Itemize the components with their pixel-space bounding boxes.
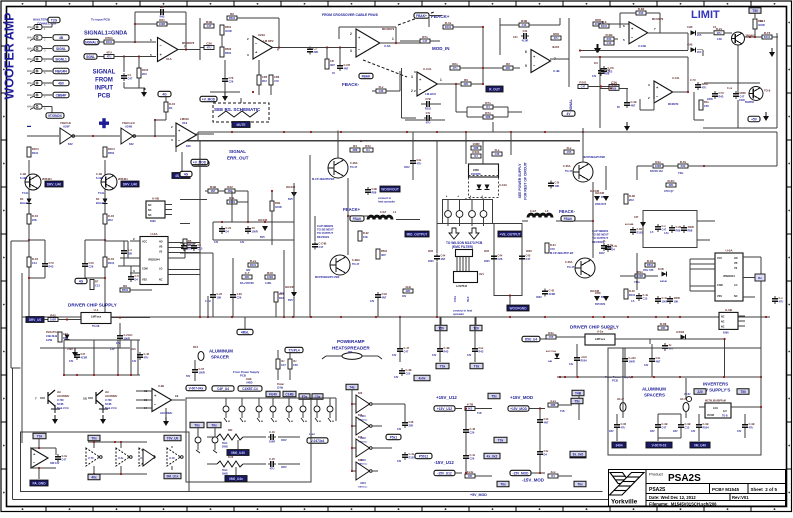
svg-text:C76: C76	[229, 76, 234, 80]
svg-text:R504: R504	[105, 36, 113, 40]
svg-text:T50: T50	[740, 390, 746, 394]
svg-text:C4x: C4x	[569, 363, 574, 366]
svg-text:R4x: R4x	[365, 144, 371, 148]
svg-text:0.4x7: 0.4x7	[530, 210, 537, 213]
svg-text:R-4C: R-4C	[629, 289, 635, 293]
svg-text:4HC0: 4HC0	[552, 45, 560, 49]
svg-text:R101: R101	[637, 231, 644, 235]
svg-text:T0x: T0x	[474, 365, 480, 369]
svg-text:1: 1	[440, 78, 442, 82]
svg-text:13V: 13V	[394, 376, 399, 379]
svg-text:T5x: T5x	[491, 395, 497, 399]
svg-text:1BV: 1BV	[650, 430, 655, 433]
svg-text:200V: 200V	[484, 260, 490, 263]
svg-text:C-1B: C-1B	[20, 172, 26, 176]
svg-text:C47: C47	[740, 95, 745, 99]
svg-text:4N7: 4N7	[544, 421, 549, 425]
svg-text:FB/GR4: FB/GR4	[55, 70, 67, 74]
svg-text:R-C0: R-C0	[108, 214, 115, 218]
svg-text:D4: D4	[169, 106, 173, 110]
svg-text:NC: NC	[721, 315, 725, 318]
svg-text:R7x: R7x	[485, 111, 491, 115]
svg-text:C4x: C4x	[417, 158, 422, 162]
svg-text:C55: C55	[567, 150, 572, 154]
svg-text:MOD_IN: MOD_IN	[432, 46, 450, 51]
svg-text:R88: R88	[551, 403, 556, 407]
svg-text:MC33079: MC33079	[382, 27, 395, 31]
svg-text:R-4x: R-4x	[445, 21, 452, 25]
svg-text:R08: R08	[553, 32, 559, 36]
svg-text:R5: R5	[188, 239, 192, 243]
svg-text:FBAK: FBAK	[564, 217, 574, 221]
svg-text:3: 3	[411, 75, 413, 79]
svg-text:R88: R88	[372, 191, 377, 195]
svg-text:TO-B: TO-B	[722, 416, 728, 418]
svg-text:FBAK: FBAK	[353, 217, 363, 221]
svg-text:R-02: R-02	[363, 231, 369, 235]
svg-text:C7U: C7U	[49, 261, 54, 265]
svg-text:C41: C41	[513, 36, 518, 39]
svg-text:R43: R43	[607, 37, 612, 41]
svg-text:13V: 13V	[392, 354, 397, 357]
svg-text:U-0A: U-0A	[150, 232, 158, 236]
svg-text:6X96: 6X96	[723, 331, 729, 334]
svg-text:M2CP3B4xPCPBF: M2CP3B4xPCPBF	[583, 155, 606, 159]
svg-text:0M0_U40: 0M0_U40	[231, 451, 245, 455]
svg-text:+15V_MOD: +15V_MOD	[510, 395, 533, 400]
svg-text:4C0R: 4C0R	[225, 29, 232, 33]
svg-text:2K2: 2K2	[142, 72, 147, 76]
svg-text:4C0R: 4C0R	[758, 23, 765, 27]
svg-text:C26: C26	[206, 42, 212, 46]
svg-text:C47: C47	[634, 216, 639, 219]
svg-text:COM: COM	[142, 268, 148, 271]
svg-text:100R: 100R	[662, 300, 668, 304]
svg-text:306B: 306B	[222, 473, 228, 476]
svg-text:TO-47: TO-47	[350, 165, 358, 169]
svg-text:3UB: 3UB	[428, 250, 433, 253]
svg-text:C-28A: C-28A	[350, 161, 358, 165]
svg-text:AV1: AV1	[479, 272, 484, 276]
svg-text:R-C0: R-C0	[32, 257, 39, 261]
svg-text:13V: 13V	[240, 241, 245, 244]
svg-text:13V: 13V	[370, 300, 375, 303]
svg-text:C-3x: C-3x	[612, 244, 618, 248]
svg-text:4-0V7B-B: 4-0V7B-B	[456, 285, 467, 288]
svg-text:HH: HH	[105, 391, 109, 394]
svg-text:C47: C47	[662, 426, 667, 430]
svg-text:400V: 400V	[404, 166, 410, 169]
svg-text:3404: 3404	[615, 444, 622, 448]
svg-text:R-0x: R-0x	[680, 160, 687, 164]
svg-text:2: 2	[350, 32, 352, 36]
svg-text:47U: 47U	[717, 31, 722, 35]
svg-text:4xx: 4xx	[550, 470, 555, 474]
svg-text:(C4b): (C4b)	[277, 387, 283, 390]
svg-text:740x: 740x	[678, 172, 684, 175]
svg-text:WAd: WAd	[27, 81, 33, 85]
svg-text:0M_U40: 0M_U40	[694, 444, 706, 448]
svg-text:VS: VS	[159, 251, 163, 254]
svg-text:COM: COM	[717, 284, 723, 287]
svg-text:M: M	[228, 421, 230, 423]
svg-text:C-1B: C-1B	[96, 172, 102, 176]
svg-text:C4H: C4H	[382, 292, 387, 296]
svg-text:R101: R101	[250, 263, 257, 267]
svg-text:R43: R43	[719, 95, 724, 99]
svg-text:4HC7C4A: 4HC7C4A	[546, 350, 556, 353]
svg-text:C-06A: C-06A	[563, 164, 571, 168]
svg-text:C27: C27	[160, 5, 165, 9]
svg-text:47U: 47U	[749, 426, 754, 430]
svg-text:T0x: T0x	[577, 483, 583, 487]
svg-text:+V_MOD: +V_MOD	[202, 98, 216, 102]
svg-text:R88: R88	[688, 229, 693, 233]
svg-text:TO-47: TO-47	[567, 265, 575, 269]
svg-text:MID_OUTPUT: MID_OUTPUT	[407, 233, 428, 237]
svg-text:TC4L: TC4L	[22, 191, 29, 195]
svg-text:C13: C13	[522, 23, 527, 27]
svg-text:D4: D4	[544, 453, 548, 457]
svg-text:4V: 4V	[332, 72, 335, 75]
svg-text:U-C4A: U-C4A	[499, 183, 507, 187]
svg-text:6X3: 6X3	[358, 392, 363, 395]
svg-text:PCB# M1545: PCB# M1545	[712, 487, 740, 492]
svg-text:FBACK+: FBACK+	[343, 207, 361, 212]
svg-text:306B: 306B	[222, 446, 228, 449]
svg-text:T5x: T5x	[574, 400, 580, 404]
svg-text:13V: 13V	[432, 354, 437, 357]
svg-text:TC4L: TC4L	[98, 191, 105, 195]
svg-text:C-24: C-24	[217, 292, 223, 296]
svg-text:Rx: Rx	[758, 276, 762, 280]
svg-text:12: 12	[175, 394, 179, 398]
svg-text:R101: R101	[629, 293, 636, 297]
svg-text:Product: Product	[649, 472, 664, 477]
svg-text:FBACK+: FBACK+	[431, 14, 450, 19]
svg-text:R-01: R-01	[647, 259, 654, 263]
svg-text:C47: C47	[662, 228, 667, 232]
svg-text:NC: NC	[148, 214, 152, 217]
svg-text:R43: R43	[639, 11, 644, 15]
svg-text:100R: 100R	[472, 142, 480, 146]
svg-text:22K: 22K	[245, 275, 250, 279]
svg-text:4N7: 4N7	[330, 63, 335, 67]
svg-text:C7U: C7U	[719, 91, 724, 95]
svg-text:M: M	[332, 421, 334, 423]
svg-text:From Power Supply: From Power Supply	[233, 370, 260, 374]
svg-text:NC: NC	[721, 320, 725, 323]
svg-text:4C0R: 4C0R	[522, 39, 529, 43]
svg-text:1: 1	[392, 37, 394, 41]
svg-text:C47: C47	[207, 24, 212, 28]
svg-text:R42: R42	[50, 314, 56, 318]
svg-text:C47: C47	[81, 352, 86, 356]
svg-text:R101: R101	[32, 151, 39, 155]
svg-text:C-46: C-46	[470, 427, 476, 431]
svg-text:MC76L/BA/BPFxM: MC76L/BA/BPFxM	[705, 400, 726, 403]
svg-text:TO-47: TO-47	[565, 169, 573, 173]
svg-text:WOOF/OUT: WOOF/OUT	[381, 188, 399, 192]
svg-text:R101: R101	[579, 81, 587, 85]
svg-text:U-C4L: U-C4L	[672, 76, 680, 80]
svg-text:POWERAMP: POWERAMP	[337, 339, 365, 344]
svg-text:U-3x: U-3x	[118, 457, 124, 460]
svg-text:R504: R504	[229, 16, 236, 20]
svg-text:DRIVER CHIP SUPPLY: DRIVER CHIP SUPPLY	[68, 303, 117, 308]
svg-text:4N7: 4N7	[631, 104, 636, 108]
svg-text:13V: 13V	[592, 75, 597, 78]
svg-text:400V: 400V	[281, 466, 287, 469]
svg-text:13V: 13V	[467, 354, 472, 357]
svg-text:100R: 100R	[269, 440, 275, 444]
svg-text:LF4004: LF4004	[676, 331, 685, 334]
svg-text:HH: HH	[57, 391, 61, 394]
svg-text:T0x: T0x	[91, 437, 97, 441]
svg-text:47U: 47U	[453, 66, 458, 70]
svg-text:D4x: D4x	[655, 160, 661, 164]
svg-text:D4: D4	[135, 278, 139, 282]
svg-text:TO-08: TO-08	[92, 324, 100, 328]
svg-text:450x 72B: 450x 72B	[643, 269, 654, 272]
svg-text:spreader: spreader	[453, 312, 464, 316]
svg-text:100R: 100R	[629, 360, 635, 364]
svg-text:+5V_MOD: +5V_MOD	[470, 493, 487, 497]
svg-text:47U: 47U	[779, 300, 784, 304]
svg-text:PCB: PCB	[98, 94, 111, 100]
svg-text:+5V: +5V	[751, 118, 758, 122]
svg-text:C14B: C14B	[285, 393, 294, 397]
svg-text:47U: 47U	[621, 426, 626, 430]
svg-text:47U: 47U	[144, 356, 149, 360]
svg-text:10K: 10K	[363, 235, 368, 239]
svg-text:BV5: BV5	[288, 198, 293, 201]
svg-text:PSA2S: PSA2S	[668, 473, 701, 484]
svg-text:0.68: 0.68	[717, 38, 722, 41]
svg-text:LO: LO	[159, 268, 162, 271]
svg-text:4C0R: 4C0R	[549, 292, 556, 296]
svg-text:4B: 4B	[59, 36, 64, 40]
svg-text:SIGNL: SIGNL	[56, 47, 66, 51]
svg-text:VS: VS	[734, 267, 738, 270]
svg-text:C13: C13	[198, 247, 203, 251]
svg-text:SIGNAL: SIGNAL	[229, 149, 246, 154]
svg-text:Dual-V-CA: Dual-V-CA	[105, 407, 117, 410]
svg-text:D4: D4	[486, 105, 490, 109]
svg-text:220: 220	[697, 390, 703, 394]
svg-text:connect to heat: connect to heat	[453, 309, 472, 313]
svg-text:C-47: C-47	[404, 346, 410, 350]
svg-text:C-7: C-7	[245, 271, 250, 275]
svg-text:C-x23: C-x23	[629, 356, 637, 360]
svg-text:U-7C: U-7C	[88, 457, 94, 460]
svg-text:HO: HO	[159, 241, 163, 244]
svg-text:100R: 100R	[267, 275, 273, 279]
svg-text:R-C2: R-C2	[169, 102, 176, 106]
svg-text:R101: R101	[108, 261, 115, 265]
svg-text:+VE_OUTPUT: +VE_OUTPUT	[500, 233, 521, 237]
svg-text:U-1C: U-1C	[169, 457, 175, 460]
svg-text:BAT4K: BAT4K	[660, 280, 668, 283]
svg-text:R4x: R4x	[548, 331, 554, 335]
svg-text:C-4B: C-4B	[406, 368, 412, 372]
svg-text:SC4B: SC4B	[57, 403, 64, 406]
svg-text:R4B: R4B	[210, 185, 217, 189]
svg-text:40R 13V: 40R 13V	[50, 462, 60, 465]
svg-text:U204: U204	[360, 482, 366, 485]
svg-text:4x2: 4x2	[280, 292, 285, 295]
svg-text:LM-OB32H: LM-OB32H	[105, 395, 117, 398]
svg-text:4HC44B: 4HC44B	[285, 286, 294, 289]
svg-text:M: M	[275, 421, 277, 423]
svg-text:R-C0: R-C0	[32, 214, 39, 218]
svg-text:C13: C13	[95, 284, 100, 288]
svg-text:R-xx: R-xx	[250, 259, 257, 263]
svg-text:C-1B: C-1B	[703, 422, 709, 426]
svg-text:4C0R: 4C0R	[275, 205, 282, 209]
svg-text:47U: 47U	[274, 79, 279, 83]
svg-text:C26: C26	[229, 80, 234, 84]
svg-text:VC4U: VC4U	[684, 393, 691, 396]
svg-text:heat spreader: heat spreader	[378, 199, 395, 203]
svg-text:R2: R2	[506, 62, 510, 66]
svg-text:WAd: WAd	[27, 25, 33, 29]
svg-text:WAd: WAd	[27, 47, 33, 51]
svg-text:PA_GND: PA_GND	[32, 482, 46, 486]
svg-text:PSA2S: PSA2S	[649, 487, 666, 493]
svg-text:2C4: 2C4	[697, 51, 702, 54]
svg-text:R-4B: R-4B	[629, 194, 635, 198]
svg-text:3UB: 3UB	[484, 250, 489, 253]
svg-text:R4C3: R4C3	[108, 147, 115, 151]
svg-text:Date: Wed Dec 12, 2012: Date: Wed Dec 12, 2012	[649, 495, 696, 500]
svg-text:4G: 4G	[162, 93, 167, 97]
svg-text:DEVICES: DEVICES	[317, 235, 329, 239]
svg-text:HO: HO	[734, 257, 738, 260]
svg-text:C-1B: C-1B	[749, 422, 755, 426]
svg-text:4N7: 4N7	[382, 296, 387, 300]
svg-text:C46: C46	[409, 420, 414, 424]
svg-text:U1A: U1A	[166, 57, 172, 61]
svg-text:LIMIT: LIMIT	[691, 9, 720, 21]
svg-text:U24B: U24B	[125, 125, 132, 129]
svg-text:2K2: 2K2	[468, 407, 473, 411]
svg-text:C-4x: C-4x	[470, 453, 476, 457]
svg-text:R0: R0	[464, 78, 468, 82]
svg-text:C4U: C4U	[89, 261, 94, 265]
svg-text:C-C4B: C-C4B	[319, 242, 327, 246]
svg-text:R7x: R7x	[422, 35, 428, 39]
svg-text:-15V_U12: -15V_U12	[434, 460, 454, 465]
svg-text:C4B: C4B	[372, 187, 377, 191]
svg-text:LC9: LC9	[713, 407, 718, 410]
svg-text:NC: NC	[148, 204, 152, 207]
svg-text:4C0R: 4C0R	[81, 356, 88, 360]
svg-text:C44: C44	[441, 254, 446, 258]
svg-text:T20: T20	[473, 327, 479, 331]
svg-text:2306: 2306	[473, 168, 479, 172]
svg-text:Dual-V-CA: Dual-V-CA	[57, 407, 69, 410]
svg-text:1BV: 1BV	[609, 430, 614, 433]
svg-text:13V: 13V	[116, 342, 121, 345]
svg-text:T7xPL4: T7xPL4	[288, 349, 300, 353]
svg-text:+4xU: +4xU	[67, 348, 73, 351]
svg-text:C4F_U4: C4F_U4	[217, 387, 229, 391]
svg-text:13V: 13V	[214, 241, 219, 244]
svg-text:47U: 47U	[550, 247, 555, 251]
svg-text:C-42: C-42	[144, 352, 150, 356]
svg-text:6X2: 6X2	[68, 142, 73, 146]
svg-text:Cxx: Cxx	[479, 346, 484, 350]
svg-text:R502: R502	[225, 47, 232, 51]
svg-text:MUTE: MUTE	[236, 123, 245, 127]
svg-text:100R: 100R	[50, 318, 56, 322]
svg-text:47U: 47U	[106, 51, 112, 55]
svg-text:R88: R88	[612, 87, 617, 91]
svg-text:+15V_MOD: +15V_MOD	[510, 407, 527, 411]
svg-text:Sheet 2 of 5: Sheet 2 of 5	[751, 487, 778, 492]
svg-text:+4xU: +4xU	[130, 348, 136, 351]
svg-text:6X96: 6X96	[150, 220, 156, 223]
svg-text:4G: 4G	[79, 280, 84, 284]
svg-text:22K: 22K	[669, 183, 674, 187]
svg-text:47U: 47U	[207, 46, 212, 50]
svg-text:C-0x: C-0x	[62, 454, 68, 458]
svg-text:CR6: CR6	[274, 75, 280, 79]
svg-text:10K: 10K	[674, 300, 679, 304]
svg-text:4U: 4U	[281, 359, 284, 363]
svg-text:R-04: R-04	[550, 243, 556, 247]
svg-text:4148: 4148	[687, 26, 693, 29]
svg-text:4N7: 4N7	[441, 257, 446, 261]
svg-text:C-45: C-45	[269, 457, 275, 461]
svg-text:MC33079: MC33079	[668, 103, 679, 106]
svg-text:4x0x: 4x0x	[418, 377, 425, 381]
svg-text:C26: C26	[498, 257, 503, 261]
svg-text:4MxL: 4MxL	[241, 331, 249, 335]
svg-text:40V: 40V	[402, 295, 407, 298]
svg-text:R43: R43	[479, 350, 484, 354]
svg-text:0M_U1x: 0M_U1x	[166, 475, 178, 479]
svg-text:22K: 22K	[409, 424, 414, 428]
svg-text:C0x: C0x	[315, 395, 321, 399]
svg-text:V-0473x4: V-0473x4	[311, 439, 325, 443]
svg-text:+4xU: +4xU	[581, 355, 587, 359]
svg-text:U20F: U20F	[63, 125, 70, 129]
svg-text:C44: C44	[498, 254, 503, 258]
svg-text:LO: LO	[734, 284, 737, 287]
svg-text:C-7U: C-7U	[690, 79, 696, 82]
svg-text:CR5: CR5	[262, 75, 268, 79]
svg-text:-15V_MOD: -15V_MOD	[513, 472, 530, 476]
svg-text:R9: R9	[123, 284, 127, 288]
svg-text:R504: R504	[108, 151, 115, 155]
svg-text:4x4x: 4x4x	[467, 470, 474, 474]
svg-text:100R: 100R	[252, 230, 258, 234]
svg-text:U-73C: U-73C	[105, 399, 112, 402]
svg-text:C-42: C-42	[549, 289, 555, 293]
svg-text:SIGNL1: SIGNL1	[55, 58, 67, 62]
svg-text:T0x: T0x	[194, 424, 200, 428]
svg-text:LM-OB32H: LM-OB32H	[57, 395, 69, 398]
svg-text:C26: C26	[470, 431, 475, 435]
svg-text:47U: 47U	[270, 467, 275, 471]
svg-text:0.4x7: 0.4x7	[380, 211, 387, 214]
svg-text:C-x: C-x	[662, 224, 667, 228]
svg-text:2.1B: 2.1B	[637, 227, 643, 231]
svg-text:400R: 400R	[688, 225, 694, 229]
svg-text:C-x: C-x	[779, 296, 784, 300]
